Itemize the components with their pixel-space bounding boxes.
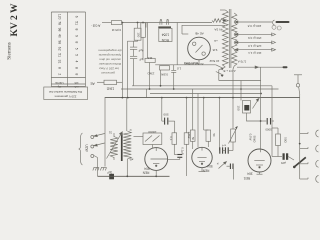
wire R-t2a down xyxy=(192,141,194,149)
terminal ant2 xyxy=(91,143,105,148)
wire x126 to coil xyxy=(126,98,128,131)
terminal ant3 xyxy=(91,155,98,158)
wire tube1 bottom xyxy=(155,170,157,176)
wire ant3 down xyxy=(97,158,99,177)
speaker blob xyxy=(244,105,249,111)
resistor R-x143 xyxy=(141,23,146,38)
wire x198 stub xyxy=(197,94,199,148)
svg-text:bei 220 V Netz: bei 220 V Netz xyxy=(99,67,119,71)
pot arrow t2 xyxy=(219,162,227,169)
bus rail y85.8 xyxy=(132,85,272,87)
svg-text:μF: μF xyxy=(139,58,143,62)
bus rail y89 xyxy=(121,88,279,90)
speaker arrow xyxy=(253,98,260,108)
capacitor C-cluster xyxy=(171,65,176,89)
tap 125V xyxy=(235,41,276,44)
arrow to trafo xyxy=(223,19,226,21)
wire x233 down xyxy=(232,98,234,129)
wire top rail mid xyxy=(122,22,212,24)
svg-text:110 gr 1,1: 110 gr 1,1 xyxy=(248,51,262,55)
svg-text:+A: +A xyxy=(214,39,218,43)
svg-text:8: 8 xyxy=(75,29,79,31)
wire vertical x147 xyxy=(147,23,149,59)
wire x219.5 down xyxy=(219,98,221,151)
wire x105 vertical xyxy=(104,98,106,167)
svg-text:2: 2 xyxy=(58,73,62,75)
svg-text:gemessen: gemessen xyxy=(101,71,115,75)
svg-text:150: 150 xyxy=(137,32,141,37)
bus rail y93.5 xyxy=(150,93,261,95)
label tube3 xyxy=(244,172,253,180)
svg-text:31: 31 xyxy=(109,131,113,135)
switch lever xyxy=(293,157,306,168)
zigzag to trafo xyxy=(212,19,223,23)
junction dots rails xyxy=(122,85,262,99)
label REN904 tube2 xyxy=(202,164,213,173)
bus rail y80.5 xyxy=(219,80,261,82)
svg-text:RGN: RGN xyxy=(161,38,169,42)
svg-text:KV 2 W: KV 2 W xyxy=(10,3,20,36)
svg-text:0,5W: 0,5W xyxy=(187,132,191,139)
wire rect loop xyxy=(182,25,225,34)
label REN904 tube1 xyxy=(142,167,150,175)
svg-text:51: 51 xyxy=(58,53,62,57)
svg-text:98: 98 xyxy=(58,28,62,32)
svg-text:904: 904 xyxy=(144,167,150,171)
svg-text:50: 50 xyxy=(212,133,216,137)
bus rail y97.6 xyxy=(105,97,300,99)
svg-text:Die Meßwerte wurden bei: Die Meßwerte wurden bei xyxy=(49,90,82,94)
svg-text:AE: AE xyxy=(90,81,95,85)
svg-text:10000: 10000 xyxy=(148,130,157,134)
svg-text:110: 110 xyxy=(147,56,152,60)
capacitor C-t2out xyxy=(230,164,233,170)
capacitor C-01 plates xyxy=(177,155,182,158)
wire primary bottom link xyxy=(219,67,226,81)
svg-text:REN: REN xyxy=(142,171,149,175)
svg-text:500: 500 xyxy=(163,113,168,117)
wire R-t2c down xyxy=(232,142,234,151)
svg-text:220 gr 0,8: 220 gr 0,8 xyxy=(247,24,261,28)
label 05W50k xyxy=(249,134,257,144)
wire x261 vertical xyxy=(260,67,262,149)
svg-text:62: 62 xyxy=(58,47,62,51)
label box RGN1054 xyxy=(159,28,172,41)
svg-text:Rö: Rö xyxy=(74,81,78,85)
svg-text:4V 5A: 4V 5A xyxy=(214,28,222,32)
switch arrow b xyxy=(216,72,224,77)
ground symbol E xyxy=(294,75,302,95)
plug pin top xyxy=(272,20,290,30)
transformer T1 secondary s2 xyxy=(232,23,237,34)
wire top rail left xyxy=(102,22,111,24)
svg-text:13kΩ: 13kΩ xyxy=(147,72,155,76)
brace antenna xyxy=(79,133,83,165)
svg-text:μ: μ xyxy=(129,129,131,133)
svg-text:125 gr 1,0: 125 gr 1,0 xyxy=(248,44,262,48)
svg-text:Siemens: Siemens xyxy=(7,42,13,60)
svg-text:AE 4B: AE 4B xyxy=(195,32,204,36)
label bar above box xyxy=(158,26,171,28)
tube V1 REN904 xyxy=(145,148,168,171)
resistor R-filter 150 xyxy=(134,28,141,40)
junction dots bottom xyxy=(126,175,157,177)
wire secondary bottom link xyxy=(233,66,234,98)
svg-text:Ua/Va: Ua/Va xyxy=(55,81,63,85)
terminal ant1 xyxy=(91,134,105,139)
capacitor C-elko1 4uF xyxy=(130,47,137,56)
svg-text:98: 98 xyxy=(58,40,62,44)
svg-text:a 4: a 4 xyxy=(222,144,226,148)
capacitor C-elko2 4uF xyxy=(130,56,137,86)
svg-text:0,1μF: 0,1μF xyxy=(181,147,185,154)
wire x177 vertical xyxy=(176,23,178,65)
svg-text:78: 78 xyxy=(58,21,62,25)
transformer T1 secondary s3 xyxy=(232,35,237,42)
wire C-t2out leads xyxy=(227,166,234,179)
svg-text:6: 6 xyxy=(75,16,79,18)
svg-text:150 gr 0,9: 150 gr 0,9 xyxy=(248,36,262,40)
wire x241 down xyxy=(240,81,242,101)
wire y121 stub right xyxy=(261,120,266,122)
wire x161.8 down xyxy=(161,98,163,122)
wire cluster1 xyxy=(149,63,151,89)
resistor R-05W horiz xyxy=(160,66,170,70)
transformer T1 secondary s5 xyxy=(232,50,237,66)
capacitor C-500pF xyxy=(165,118,168,125)
wire y121 grid line xyxy=(162,120,164,122)
wire x186.5 down xyxy=(186,98,188,133)
speaker box xyxy=(243,101,251,114)
svg-text:9: 9 xyxy=(75,35,79,37)
wire x192.7 stub xyxy=(192,89,194,130)
table caption text xyxy=(49,90,82,98)
wire x143 to cluster xyxy=(142,37,144,60)
svg-text:die angegebenen: die angegebenen xyxy=(98,49,122,53)
svg-text:120: 120 xyxy=(58,14,62,20)
svg-text:Röhrenvoltmeter: Röhrenvoltmeter xyxy=(98,62,121,66)
table caption box xyxy=(44,87,88,100)
note text block xyxy=(98,49,122,76)
svg-text:10 5Ω2: 10 5Ω2 xyxy=(209,59,219,63)
wire tube3 bottom xyxy=(257,172,263,174)
svg-text:220 V gemessen: 220 V gemessen xyxy=(54,94,76,98)
svg-text:150: 150 xyxy=(237,105,241,110)
svg-text:13kΩ: 13kΩ xyxy=(106,87,114,91)
switch arrow a xyxy=(216,65,224,70)
wire R70k down xyxy=(173,144,175,154)
wire tube bottom stub xyxy=(198,60,200,65)
svg-text:0,1: 0,1 xyxy=(169,137,173,141)
table frame xyxy=(51,12,85,87)
svg-text:5: 5 xyxy=(75,48,79,50)
wire mid y64.8 xyxy=(155,64,216,66)
capacitor C-t2 a xyxy=(220,147,223,153)
transformer T1 secondary s4 xyxy=(232,43,237,49)
resistor R-70k xyxy=(172,133,177,145)
tube V2 REN904 xyxy=(192,147,212,167)
bus bottom y176 xyxy=(98,175,170,177)
wire x272 down xyxy=(271,86,273,157)
svg-text:A 0,8 ·: A 0,8 · xyxy=(91,24,101,28)
svg-text:364: 364 xyxy=(247,172,253,176)
transformer T1 secondary s1 xyxy=(232,13,237,21)
svg-text:Spannungswerte: Spannungswerte xyxy=(98,53,121,57)
wire x146.5 down xyxy=(146,89,148,98)
svg-text:0,5W: 0,5W xyxy=(249,134,253,141)
resistor R-top xyxy=(111,21,121,25)
wire cap to lever xyxy=(288,157,294,161)
wire AE lead xyxy=(97,81,104,83)
wire right vertical xyxy=(299,95,301,179)
svg-text:904: 904 xyxy=(207,164,213,168)
resistor R-110 horiz xyxy=(145,58,155,62)
junction dot x261 xyxy=(260,120,262,122)
svg-text:3,75 A: 3,75 A xyxy=(238,60,247,64)
wire R-t2b link xyxy=(204,130,209,147)
wire tube2 bottom xyxy=(199,168,206,172)
resistor R-AE xyxy=(104,80,117,84)
capacitor C-5000 xyxy=(267,118,270,125)
svg-text:8: 8 xyxy=(75,67,79,69)
svg-text:UZW: UZW xyxy=(85,144,89,151)
jack junction dot xyxy=(299,143,301,145)
capacitor C-t2 b xyxy=(225,147,228,153)
svg-text:9-B: 9-B xyxy=(213,48,218,52)
wire x203.7 down xyxy=(203,98,205,130)
transformer T1 core xyxy=(229,9,231,68)
chassis mark b xyxy=(100,168,106,171)
svg-text:RGN 1054: RGN 1054 xyxy=(184,61,199,65)
wire C01 xyxy=(168,155,180,160)
svg-text:40: 40 xyxy=(58,34,62,38)
wire speaker down xyxy=(247,113,262,121)
svg-text:1054: 1054 xyxy=(162,33,170,37)
wire C-t2 link xyxy=(223,150,226,152)
svg-text:4: 4 xyxy=(75,61,79,63)
resistor R-t2a xyxy=(190,130,195,141)
resistor R-t2b xyxy=(206,130,211,141)
wire R05Wb down xyxy=(186,144,188,176)
plug pin bottom xyxy=(283,66,288,68)
svg-text:8: 8 xyxy=(75,73,79,75)
svg-text:8: 8 xyxy=(75,41,79,43)
tap 220V line xyxy=(235,21,273,23)
coil core bar xyxy=(121,133,123,162)
varres R-t2c xyxy=(229,126,238,144)
table values xyxy=(58,14,79,75)
svg-text:5000: 5000 xyxy=(265,128,272,132)
tube V4 rectifier xyxy=(188,37,211,60)
wire R-50 leads xyxy=(272,128,278,157)
capacitor C-2uF blob xyxy=(109,174,114,180)
svg-text:aB: aB xyxy=(130,158,134,162)
coil L1 left winding xyxy=(110,137,118,158)
filament line xyxy=(237,66,283,68)
svg-text:μF5: μF5 xyxy=(281,161,286,165)
wire primary top lead xyxy=(220,9,225,11)
jack contact 1 xyxy=(300,130,319,137)
wire box to tube1 xyxy=(152,145,154,148)
svg-text:31: 31 xyxy=(58,60,62,64)
svg-text:0,05 M: 0,05 M xyxy=(111,28,121,32)
transformer T1 primary xyxy=(222,10,228,67)
jack contact 4 xyxy=(300,176,319,183)
grid combo box xyxy=(143,133,162,145)
wire R-filter bottom link xyxy=(127,40,137,41)
tap 110V xyxy=(235,48,276,51)
tuning arrow xyxy=(107,132,123,159)
svg-text:5: 5 xyxy=(75,54,79,56)
chassis mark a xyxy=(93,168,99,171)
coil L2 right winding xyxy=(123,131,131,159)
wire cluster2 xyxy=(160,70,162,86)
wire vertical x143 top xyxy=(142,22,144,24)
wire x146 stub xyxy=(145,23,147,28)
jack contact 3 xyxy=(300,160,319,167)
table header cells xyxy=(55,81,78,89)
wire y156.5 xyxy=(272,156,282,158)
pin marks above RGN box xyxy=(160,20,169,25)
svg-text:8: 8 xyxy=(58,67,62,69)
resistor R-05W-b xyxy=(184,133,189,145)
wire x174.7 down xyxy=(174,121,176,133)
wire R-filter top xyxy=(137,23,139,29)
svg-text:50Ω: 50Ω xyxy=(284,137,288,143)
svg-text:A 0,5 + B: A 0,5 + B xyxy=(223,69,235,73)
svg-text:0,5W: 0,5W xyxy=(161,73,168,77)
label RGN1054 text xyxy=(161,33,169,43)
svg-text:50kΩ: 50kΩ xyxy=(253,136,257,144)
capacitor C-5uF blob xyxy=(283,153,285,160)
grid combo resistor xyxy=(145,136,160,142)
svg-text:wurden mit dem: wurden mit dem xyxy=(99,58,121,62)
coil leads xyxy=(114,133,127,176)
wire x127.4 vertical xyxy=(126,41,128,97)
tap 150V xyxy=(235,33,276,36)
svg-text:51: 51 xyxy=(75,21,79,25)
tube V3 RES output xyxy=(248,149,271,172)
jack contact 2 xyxy=(300,145,319,152)
wire box left lead xyxy=(134,136,144,138)
svg-text:1,0: 1,0 xyxy=(177,67,182,71)
wire elko stub xyxy=(133,41,135,47)
wire vertical x122 xyxy=(121,23,123,98)
svg-text:RES: RES xyxy=(244,176,251,180)
wire AE to grid col xyxy=(117,81,123,83)
resistor R-50 xyxy=(276,134,281,146)
